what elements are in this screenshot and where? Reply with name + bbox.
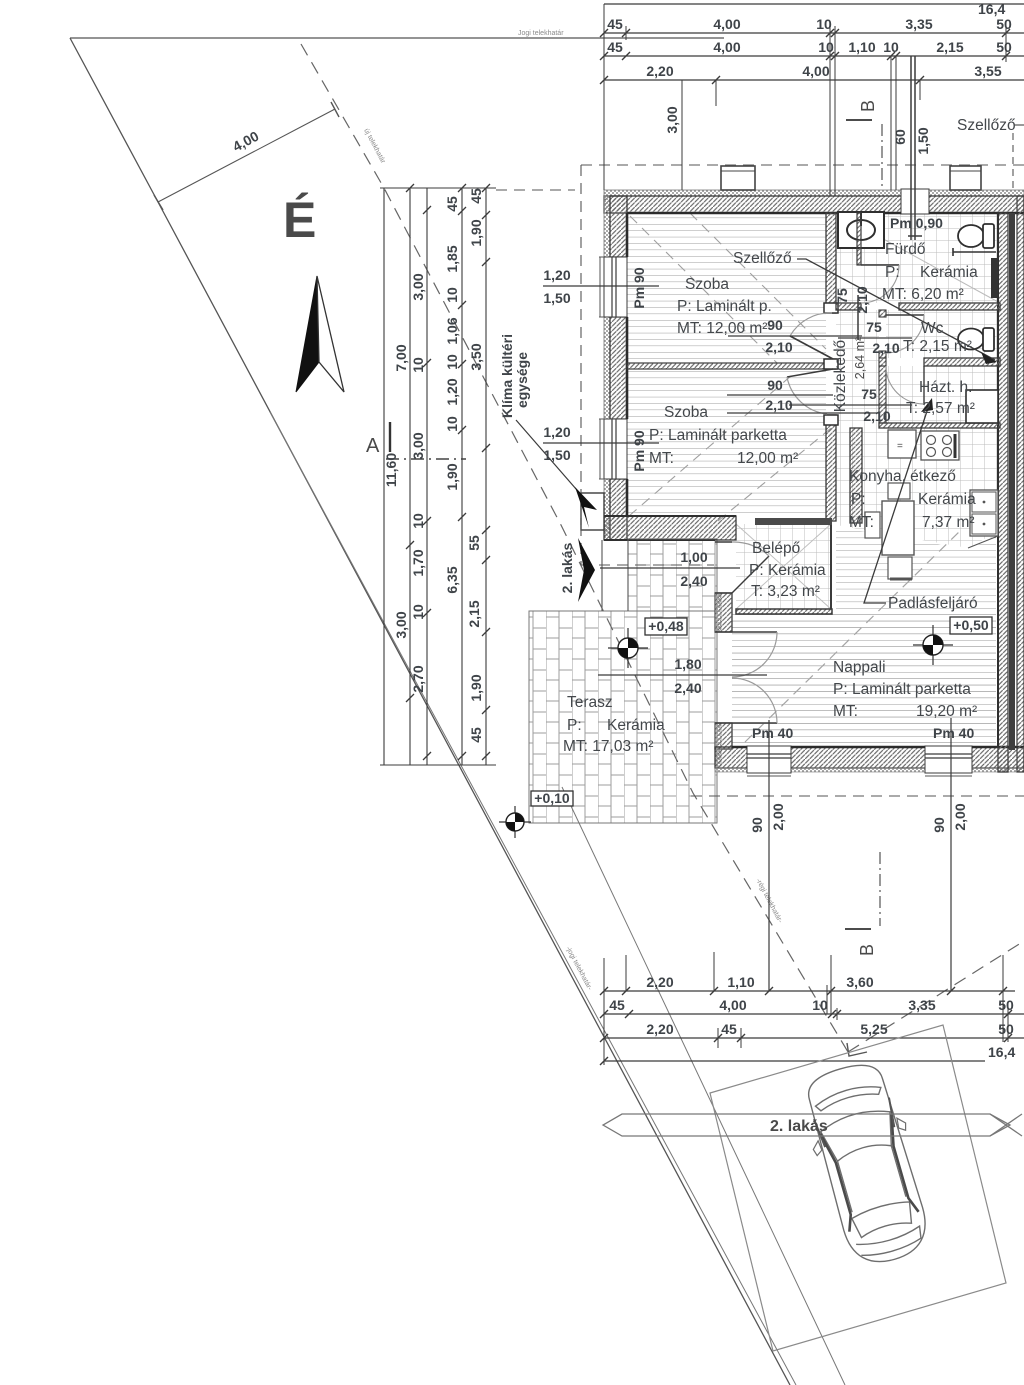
svg-text:2,15: 2,15 (466, 600, 482, 627)
svg-text:1,80: 1,80 (674, 656, 701, 672)
svg-text:2,64 m²: 2,64 m² (853, 337, 867, 379)
door nappali double (732, 632, 777, 723)
window dim verticals S (769, 718, 951, 991)
belepo north bold band (755, 518, 832, 525)
svg-text:3,00: 3,00 (393, 611, 409, 638)
svg-text:1,20: 1,20 (543, 267, 570, 283)
svg-text:Pm 40: Pm 40 (933, 725, 974, 741)
svg-text:90: 90 (931, 817, 947, 833)
svg-text:P:: P: (567, 717, 582, 734)
svg-text:MT:: MT: (833, 703, 858, 720)
svg-text:3,60: 3,60 (846, 974, 873, 990)
kitchen table (882, 501, 914, 555)
driveway edge line (562, 787, 845, 1385)
svg-text:12,00 m²: 12,00 m² (737, 450, 798, 467)
unit2 wall right edge (1017, 196, 1024, 772)
entry door dim (600, 567, 740, 569)
sw corner strip lines (602, 539, 717, 611)
vent line vertical (908, 56, 922, 240)
survey marker terasz sw (499, 806, 531, 838)
svg-text:MT: 12,00 m²: MT: 12,00 m² (677, 320, 767, 337)
chair bottom (888, 557, 912, 579)
svg-text:19,20 m²: 19,20 m² (916, 703, 977, 720)
wall corridor west segments (826, 213, 836, 313)
svg-text:1,50: 1,50 (543, 290, 570, 306)
svg-text:3,55: 3,55 (974, 63, 1001, 79)
svg-text:MT: 6,20 m²: MT: 6,20 m² (882, 286, 964, 303)
furdo west jamb line (857, 295, 859, 340)
wall wc west caps (879, 310, 886, 317)
svg-text:10: 10 (410, 513, 426, 529)
svg-text:Kerámia: Kerámia (607, 717, 665, 734)
left dim block verticals (384, 188, 486, 765)
door jamb caps corridor wall (824, 303, 838, 313)
floor wc ceramic (886, 310, 1000, 358)
old fence dashed diagonal (848, 941, 1024, 1052)
level box +0,50 (950, 617, 992, 634)
svg-text:2,00: 2,00 (952, 803, 968, 830)
svg-text:60: 60 (892, 129, 908, 145)
svg-text:50: 50 (996, 16, 1012, 32)
door wc (886, 314, 924, 316)
svg-text:Szoba: Szoba (685, 276, 729, 293)
kitchen fridge (888, 430, 916, 458)
svg-text:90: 90 (767, 377, 783, 393)
wall top vent gap (901, 189, 929, 214)
svg-text:45: 45 (468, 188, 484, 204)
radiator furdo (991, 258, 998, 298)
svg-text:2,20: 2,20 (646, 63, 673, 79)
svg-text:16,4: 16,4 (988, 1044, 1015, 1060)
window W1 left (604, 257, 627, 317)
wall party right hatched (998, 213, 1008, 772)
svg-text:Kerámia: Kerámia (918, 491, 976, 508)
svg-text:MT:: MT: (649, 450, 674, 467)
bottom dim rowD total (604, 1060, 985, 1062)
svg-text:1,06: 1,06 (444, 317, 460, 344)
svg-text:P: Laminált parketta: P: Laminált parketta (833, 681, 971, 698)
svg-text:75: 75 (866, 319, 882, 335)
svg-text:2,40: 2,40 (680, 573, 707, 589)
floor szoba2 laminate (627, 369, 826, 516)
svg-text:45: 45 (607, 16, 623, 32)
svg-text:1,70: 1,70 (410, 549, 426, 576)
svg-text:6,35: 6,35 (444, 566, 460, 593)
svg-text:10: 10 (410, 604, 426, 620)
svg-text:10: 10 (883, 39, 899, 55)
kitchen stove (921, 431, 959, 460)
left dim ticks (406, 184, 490, 760)
door szoba1 dim (728, 335, 862, 337)
wall wc south (879, 358, 886, 366)
room diagonals szoba1 dashed (630, 213, 826, 363)
svg-text:T: 2,15 m²: T: 2,15 m² (903, 338, 972, 355)
entry door frame lines (715, 542, 732, 723)
wall top hatched (604, 196, 1024, 213)
svg-text:1,00: 1,00 (680, 549, 707, 565)
svg-text:Terasz: Terasz (567, 694, 613, 711)
svg-text:1,10: 1,10 (727, 974, 754, 990)
floor terasz brick (529, 611, 717, 823)
car (794, 1056, 941, 1273)
svg-text:Szoba: Szoba (664, 404, 708, 421)
svg-text:2. lakás: 2. lakás (770, 1118, 828, 1135)
floor furdo ceramic (836, 213, 1000, 303)
window sills south (747, 775, 972, 777)
svg-text:4,00: 4,00 (719, 997, 746, 1013)
chair left (865, 512, 880, 538)
washer hazt (966, 390, 998, 423)
wall left stipple (604, 196, 610, 540)
floor hazt ceramic (886, 366, 1000, 423)
top dim row3 (604, 55, 1024, 57)
svg-text:Klíma kültéri: Klíma kültéri (499, 334, 515, 418)
wall left inner face (626, 213, 629, 516)
window S1 (747, 746, 791, 773)
klima unit box (581, 493, 604, 530)
top dim row1 total (604, 3, 1024, 5)
svg-text:55: 55 (466, 535, 482, 551)
door hazt (923, 366, 925, 404)
svg-text:Házt. h.: Házt. h. (919, 379, 972, 396)
floor corridor ceramic (836, 310, 879, 428)
svg-text:3,35: 3,35 (905, 16, 932, 32)
svg-text:2,10: 2,10 (765, 339, 792, 355)
svg-text:3,00: 3,00 (664, 106, 680, 133)
wall furdo west upper (857, 213, 861, 265)
wall top inner face (627, 212, 1024, 215)
wall left hatched piers (610, 196, 627, 257)
svg-text:B: B (857, 944, 877, 956)
svg-text:Jogi telekhatár: Jogi telekhatár (518, 30, 564, 37)
svg-text:1,10: 1,10 (848, 39, 875, 55)
floor walkway brick (628, 539, 717, 611)
svg-text:2,10: 2,10 (872, 340, 899, 356)
chimney left (721, 166, 755, 190)
svg-text:10: 10 (816, 16, 832, 32)
wall top stipple (604, 190, 1024, 196)
svg-text:Pm 90: Pm 90 (631, 430, 647, 471)
svg-text:A: A (366, 435, 380, 457)
boundary top line (70, 37, 724, 39)
svg-text:egysége: egysége (514, 352, 530, 408)
wall furdo south (836, 303, 861, 310)
kitchen counter right (970, 490, 998, 536)
svg-text:2. lakás: 2. lakás (559, 542, 575, 593)
svg-text:Wc: Wc (921, 320, 944, 337)
window W1 dim (543, 285, 659, 287)
svg-text:1,20: 1,20 (444, 378, 460, 405)
szellozo top dashed (1012, 133, 1014, 190)
level box +0,48 (645, 618, 687, 635)
wall south hatched (715, 747, 1024, 768)
svg-text:MT:: MT: (849, 514, 874, 531)
svg-text:2,10: 2,10 (765, 397, 792, 413)
svg-text:+0,48: +0,48 (648, 618, 684, 634)
toilet wc (958, 329, 984, 350)
toilet furdo (958, 225, 984, 247)
svg-text:3,00: 3,00 (410, 273, 426, 300)
svg-text:7,00: 7,00 (393, 344, 409, 371)
svg-text:Belépő: Belépő (752, 540, 800, 557)
svg-text:10: 10 (812, 997, 828, 1013)
svg-text:2,15: 2,15 (936, 39, 963, 55)
party wall dark bar (1009, 213, 1015, 750)
svg-text:Konyha, étkező: Konyha, étkező (849, 468, 956, 485)
svg-text:É: É (283, 192, 316, 248)
svg-text:2,10: 2,10 (863, 408, 890, 424)
wall szoba divider (627, 363, 836, 369)
svg-text:50: 50 (998, 1021, 1014, 1037)
svg-text:Padlásfeljáró: Padlásfeljáró (888, 595, 978, 612)
bottom dim rowC (604, 1037, 1024, 1039)
svg-text:B: B (858, 100, 878, 112)
top dim row2 (604, 32, 1024, 34)
room diagonal furdo (836, 213, 1000, 303)
svg-text:2,10: 2,10 (854, 286, 870, 313)
svg-text:45: 45 (721, 1021, 737, 1037)
svg-text:2,20: 2,20 (646, 974, 673, 990)
north arrow (296, 276, 319, 392)
door szoba2 (787, 369, 833, 377)
svg-text:1,90: 1,90 (468, 674, 484, 701)
svg-text:P: Laminált parketta: P: Laminált parketta (649, 427, 787, 444)
svg-text:Szellőző: Szellőző (957, 117, 1016, 134)
roof overhang dashed (581, 165, 1024, 796)
window S2 (925, 746, 972, 773)
door szoba1 (790, 336, 833, 359)
wall hazt west (879, 366, 886, 423)
door szoba2 dim (727, 395, 880, 413)
svg-text:75: 75 (834, 288, 850, 304)
svg-text:Nappali: Nappali (833, 659, 886, 676)
svg-text:2,00: 2,00 (770, 803, 786, 830)
svg-text:50: 50 (996, 39, 1012, 55)
door belepo entry (732, 556, 769, 593)
top dim row4 (604, 79, 1024, 81)
boundary west line (70, 38, 790, 1385)
svg-text:2,20: 2,20 (646, 1021, 673, 1037)
svg-text:=: = (897, 441, 903, 452)
bottom dim rowA (604, 990, 1015, 992)
svg-text:4,00: 4,00 (713, 39, 740, 55)
svg-text:11,60: 11,60 (383, 453, 399, 487)
svg-text:4,00: 4,00 (713, 16, 740, 32)
svg-text:45: 45 (609, 997, 625, 1013)
svg-text:4,00: 4,00 (802, 63, 829, 79)
svg-text:7,37 m²: 7,37 m² (922, 514, 975, 531)
svg-text:P: Laminált p.: P: Laminált p. (677, 298, 772, 315)
svg-text:75: 75 (861, 386, 877, 402)
svg-text:Pm 40: Pm 40 (752, 725, 793, 741)
svg-text:+0,10: +0,10 (534, 790, 570, 806)
svg-text:+0,50: +0,50 (953, 617, 989, 633)
door furdo (861, 264, 899, 266)
dim 4,00 boundary (158, 109, 335, 202)
floor belepo ceramic (736, 524, 831, 609)
terasz door dim (598, 674, 767, 676)
svg-text:16,4: 16,4 (978, 1, 1005, 17)
parking space rect (710, 1025, 1006, 1351)
svg-text:45: 45 (444, 196, 460, 212)
svg-text:Kerámia: Kerámia (920, 264, 978, 281)
2.lakas banner (603, 1114, 1010, 1136)
wall szoba2 south thick (604, 516, 736, 540)
svg-text:10: 10 (444, 287, 460, 303)
svg-text:T: 3,23 m²: T: 3,23 m² (751, 583, 820, 600)
wall hazt south (879, 423, 1000, 428)
svg-text:3,50: 3,50 (468, 343, 484, 370)
svg-text:Szellőző: Szellőző (733, 250, 792, 267)
bottom dim rowB (604, 1013, 1024, 1015)
svg-text:3,35: 3,35 (908, 997, 935, 1013)
door wc dim (838, 337, 912, 339)
top dim verticals (604, 4, 1006, 196)
floor nappali laminate (732, 527, 996, 747)
chimney right (950, 166, 981, 190)
svg-text:45: 45 (468, 727, 484, 743)
svg-text:10: 10 (444, 416, 460, 432)
svg-text:P:: P: (851, 491, 866, 508)
bottom dim verticals (604, 952, 1008, 1065)
svg-text:5,25: 5,25 (860, 1021, 887, 1037)
room diagonals nappali dashed (745, 528, 963, 742)
svg-text:Pm 90: Pm 90 (631, 267, 647, 308)
svg-text:2,70: 2,70 (410, 665, 426, 692)
svg-text:1,90: 1,90 (444, 463, 460, 490)
room diagonal belepo (736, 524, 831, 609)
svg-text:Fürdő: Fürdő (885, 241, 926, 258)
svg-text:MT: 17,03 m²: MT: 17,03 m² (563, 738, 653, 755)
svg-text:P:: P: (885, 264, 900, 281)
wall south inner face (732, 746, 1024, 749)
svg-text:P: Kerámia: P: Kerámia (749, 562, 826, 579)
old boundary dashed diagonal (301, 44, 848, 1052)
wall belepo east line (830, 521, 832, 609)
svg-text:1,50: 1,50 (915, 127, 931, 154)
svg-text:Közlekedő: Közlekedő (832, 340, 849, 412)
survey marker nappali (913, 625, 953, 665)
room diagonals szoba2 dashed (629, 375, 836, 521)
svg-text:90: 90 (767, 317, 783, 333)
svg-text:3,00: 3,00 (410, 432, 426, 459)
window W2 left (604, 419, 627, 479)
svg-text:10: 10 (444, 354, 460, 370)
wall west lower piers (715, 593, 732, 632)
svg-text:1,50: 1,50 (543, 447, 570, 463)
svg-text:1,85: 1,85 (444, 245, 460, 272)
level box +0,10 (531, 791, 573, 806)
window W2 dim (543, 442, 659, 444)
chair top (888, 483, 910, 499)
svg-text:90: 90 (749, 817, 765, 833)
wall konyha west (850, 428, 862, 523)
svg-text:10: 10 (818, 39, 834, 55)
sink furdo (838, 212, 884, 248)
floor konyha ceramic (836, 428, 1000, 548)
svg-text:10: 10 (410, 357, 426, 373)
floor szoba1 laminate (627, 213, 826, 363)
svg-text:2,40: 2,40 (674, 680, 701, 696)
survey marker terasz (608, 628, 648, 668)
door hazt dim (789, 404, 912, 406)
svg-text:1,90: 1,90 (468, 219, 484, 246)
corner mark L (847, 1043, 867, 1056)
svg-text:T: 2,57 m²: T: 2,57 m² (906, 400, 975, 417)
svg-text:Pm 0,90: Pm 0,90 (890, 215, 943, 231)
svg-text:50: 50 (998, 997, 1014, 1013)
svg-text:45: 45 (607, 39, 623, 55)
wall belepo south (736, 609, 832, 614)
window sills (599, 257, 604, 479)
svg-text:1,20: 1,20 (543, 424, 570, 440)
